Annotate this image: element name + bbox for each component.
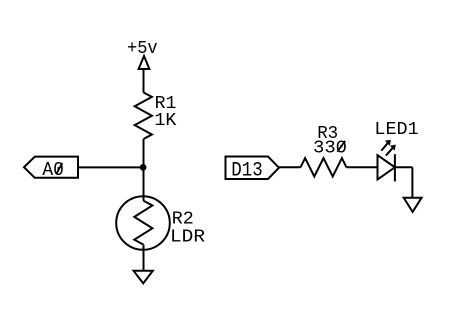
svg-text:+5v: +5v [127, 38, 158, 59]
svg-text:330: 330 [313, 137, 347, 158]
svg-text:LDR: LDR [170, 227, 205, 248]
svg-text:1K: 1K [154, 110, 177, 131]
svg-text:A0: A0 [42, 159, 64, 181]
svg-text:D13: D13 [231, 159, 262, 182]
svg-text:LED1: LED1 [374, 119, 418, 140]
